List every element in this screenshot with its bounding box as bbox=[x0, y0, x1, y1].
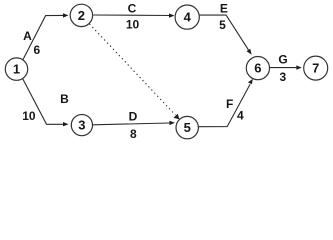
wire activity C line 2->4 bbox=[93, 13, 174, 17]
wire dummy activity dotted 2->5 bbox=[89, 24, 179, 120]
svg-text:1: 1 bbox=[13, 62, 20, 77]
svg-text:10: 10 bbox=[126, 18, 140, 32]
svg-text:7: 7 bbox=[312, 61, 319, 76]
svg-text:6: 6 bbox=[34, 43, 41, 57]
svg-text:8: 8 bbox=[130, 127, 137, 141]
wire activity D line 3->5 bbox=[93, 121, 175, 125]
node 4 bbox=[175, 5, 199, 29]
svg-text:C: C bbox=[128, 2, 137, 16]
svg-text:3: 3 bbox=[280, 70, 287, 84]
svg-text:A: A bbox=[23, 29, 32, 43]
wire activity A line 1->2 bbox=[22, 13, 68, 61]
node 1 bbox=[5, 58, 27, 80]
node 2 bbox=[70, 4, 92, 26]
node 5 bbox=[176, 116, 198, 138]
svg-text:10: 10 bbox=[22, 109, 36, 123]
svg-text:4: 4 bbox=[237, 109, 244, 123]
svg-text:E: E bbox=[220, 2, 228, 16]
node 3 bbox=[71, 115, 92, 136]
svg-text:3: 3 bbox=[78, 118, 85, 133]
svg-text:5: 5 bbox=[184, 120, 191, 135]
wire activity E line 4->6 bbox=[199, 15, 252, 55]
svg-text:B: B bbox=[60, 92, 69, 106]
svg-text:F: F bbox=[226, 97, 233, 111]
node 7 bbox=[304, 56, 328, 80]
svg-text:G: G bbox=[278, 52, 287, 66]
wire activity F line 5->6 bbox=[199, 79, 253, 127]
svg-text:4: 4 bbox=[184, 10, 192, 25]
node 6 bbox=[246, 57, 269, 80]
svg-text:6: 6 bbox=[254, 61, 261, 76]
svg-text:D: D bbox=[129, 109, 138, 123]
svg-text:2: 2 bbox=[78, 8, 85, 23]
wire activity G line 6->7 bbox=[269, 65, 302, 69]
wire activity B line 1->3 bbox=[22, 78, 68, 127]
svg-text:5: 5 bbox=[219, 18, 226, 32]
